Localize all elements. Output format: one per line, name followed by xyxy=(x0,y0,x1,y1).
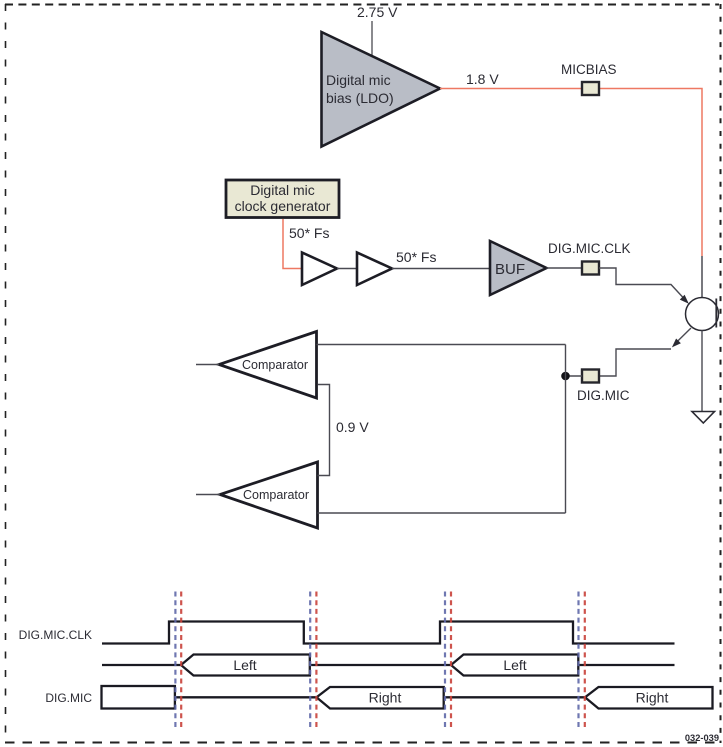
wire comparator bus vertical xyxy=(565,345,567,514)
timing marker red 4 xyxy=(584,592,586,728)
timing marker red 1 xyxy=(180,592,182,728)
comparator U3 xyxy=(219,332,317,399)
svg-text:DIG.MIC: DIG.MIC xyxy=(45,691,92,705)
data tag Right 1 xyxy=(317,687,444,709)
svg-text:Right: Right xyxy=(636,690,669,706)
svg-text:DIG.MIC.CLK: DIG.MIC.CLK xyxy=(19,628,92,642)
svg-text:Digital mic: Digital mic xyxy=(250,182,315,198)
wire DIG.MIC.CLK pin to microphone (with arrow) xyxy=(599,268,689,304)
border frame bottom xyxy=(5,742,719,744)
microphone MIC1 xyxy=(686,298,719,331)
label 50* Fs (lower) xyxy=(396,249,436,265)
label DIG.MIC.CLK xyxy=(548,241,631,256)
wire comparator U4 input xyxy=(196,494,220,496)
ground xyxy=(692,412,715,424)
buffer U2 BUF xyxy=(490,241,547,295)
comparator U4 xyxy=(220,462,318,528)
wire microphone data out to DIG.MIC pin (with arrow) xyxy=(599,328,691,376)
block: Digital mic clock generator xyxy=(226,180,339,218)
timing marker blue 1 xyxy=(174,592,176,728)
node DIG.MIC junction xyxy=(561,372,570,381)
wire comparator U4 output xyxy=(318,512,566,514)
waveform DIG.MIC.CLK xyxy=(102,622,675,644)
wire DIG.MIC row leading xyxy=(175,696,317,698)
waveform DIG.MIC pulse xyxy=(102,686,175,709)
label 2.75 V xyxy=(357,4,398,20)
svg-text:2.75 V: 2.75 V xyxy=(357,4,398,20)
label DIG.MIC (timing) xyxy=(45,691,92,705)
wire clock generator to buffer (red) xyxy=(283,219,301,269)
wire data row middle xyxy=(310,664,451,666)
wire comparator U3 input xyxy=(196,364,219,366)
svg-text:Right: Right xyxy=(369,690,402,706)
wire comparator U3 output xyxy=(317,344,566,346)
wire buffer A2 to BUF xyxy=(392,268,490,270)
data tag Left 1 xyxy=(181,655,310,676)
label DIG.MIC.CLK (timing) xyxy=(19,628,92,642)
pin DIG.MIC.CLK xyxy=(582,262,599,275)
buffer A1 xyxy=(302,253,337,286)
pin MICBIAS xyxy=(561,62,617,95)
svg-text:1.8 V: 1.8 V xyxy=(466,71,499,87)
wire data row leading xyxy=(102,664,181,666)
svg-text:032-039: 032-039 xyxy=(685,733,719,743)
svg-text:50* Fs: 50* Fs xyxy=(289,225,329,241)
data tag Left 2 xyxy=(451,655,578,676)
wire 0.9 V reference bracket xyxy=(318,385,330,476)
svg-text:BUF: BUF xyxy=(495,261,525,278)
svg-text:DIG.MIC: DIG.MIC xyxy=(577,388,630,403)
svg-text:Comparator: Comparator xyxy=(242,358,308,372)
label 1.8 V xyxy=(466,71,499,87)
svg-text:Digital mic: Digital mic xyxy=(326,72,391,88)
wire LDO output to MICBIAS (red) xyxy=(440,89,702,257)
label 50* Fs (upper) xyxy=(289,225,329,241)
wire buffer A1 to buffer A2 xyxy=(337,268,357,270)
border frame left xyxy=(5,4,7,743)
svg-text:bias (LDO): bias (LDO) xyxy=(326,90,394,106)
op-amp U1 Digital mic bias (LDO) xyxy=(322,32,441,147)
svg-text:DIG.MIC.CLK: DIG.MIC.CLK xyxy=(548,241,631,256)
svg-text:clock generator: clock generator xyxy=(235,198,331,214)
wire data row trailing xyxy=(578,664,674,666)
wire leader from 2.75 V to LDO xyxy=(371,21,373,56)
border frame right xyxy=(720,4,722,743)
wire DIG.MIC row middle xyxy=(444,696,585,698)
label 0.9 V xyxy=(336,419,369,435)
svg-text:MICBIAS: MICBIAS xyxy=(561,62,617,77)
timing marker blue 3 xyxy=(444,592,446,728)
svg-text:0.9 V: 0.9 V xyxy=(336,419,369,435)
timing marker blue 4 xyxy=(577,592,579,728)
svg-text:Comparator: Comparator xyxy=(243,488,309,502)
wire MICBIAS net down to mic (gray) xyxy=(701,256,703,298)
timing marker red 3 xyxy=(450,592,452,728)
label figure number 032-039 xyxy=(685,733,719,743)
data tag Right 2 xyxy=(585,687,713,709)
buffer A2 xyxy=(357,253,392,286)
wire DIG.MIC pin to junction xyxy=(566,375,583,377)
wire BUF to DIG.MIC.CLK pin xyxy=(547,267,583,269)
border frame top xyxy=(5,4,719,6)
pin DIG.MIC xyxy=(577,370,630,404)
timing marker blue 2 xyxy=(309,592,311,728)
timing marker red 2 xyxy=(315,592,317,728)
svg-text:Left: Left xyxy=(233,657,256,673)
svg-text:Left: Left xyxy=(503,657,526,673)
wire ground connection from microphone xyxy=(701,331,703,412)
svg-text:50* Fs: 50* Fs xyxy=(396,249,436,265)
